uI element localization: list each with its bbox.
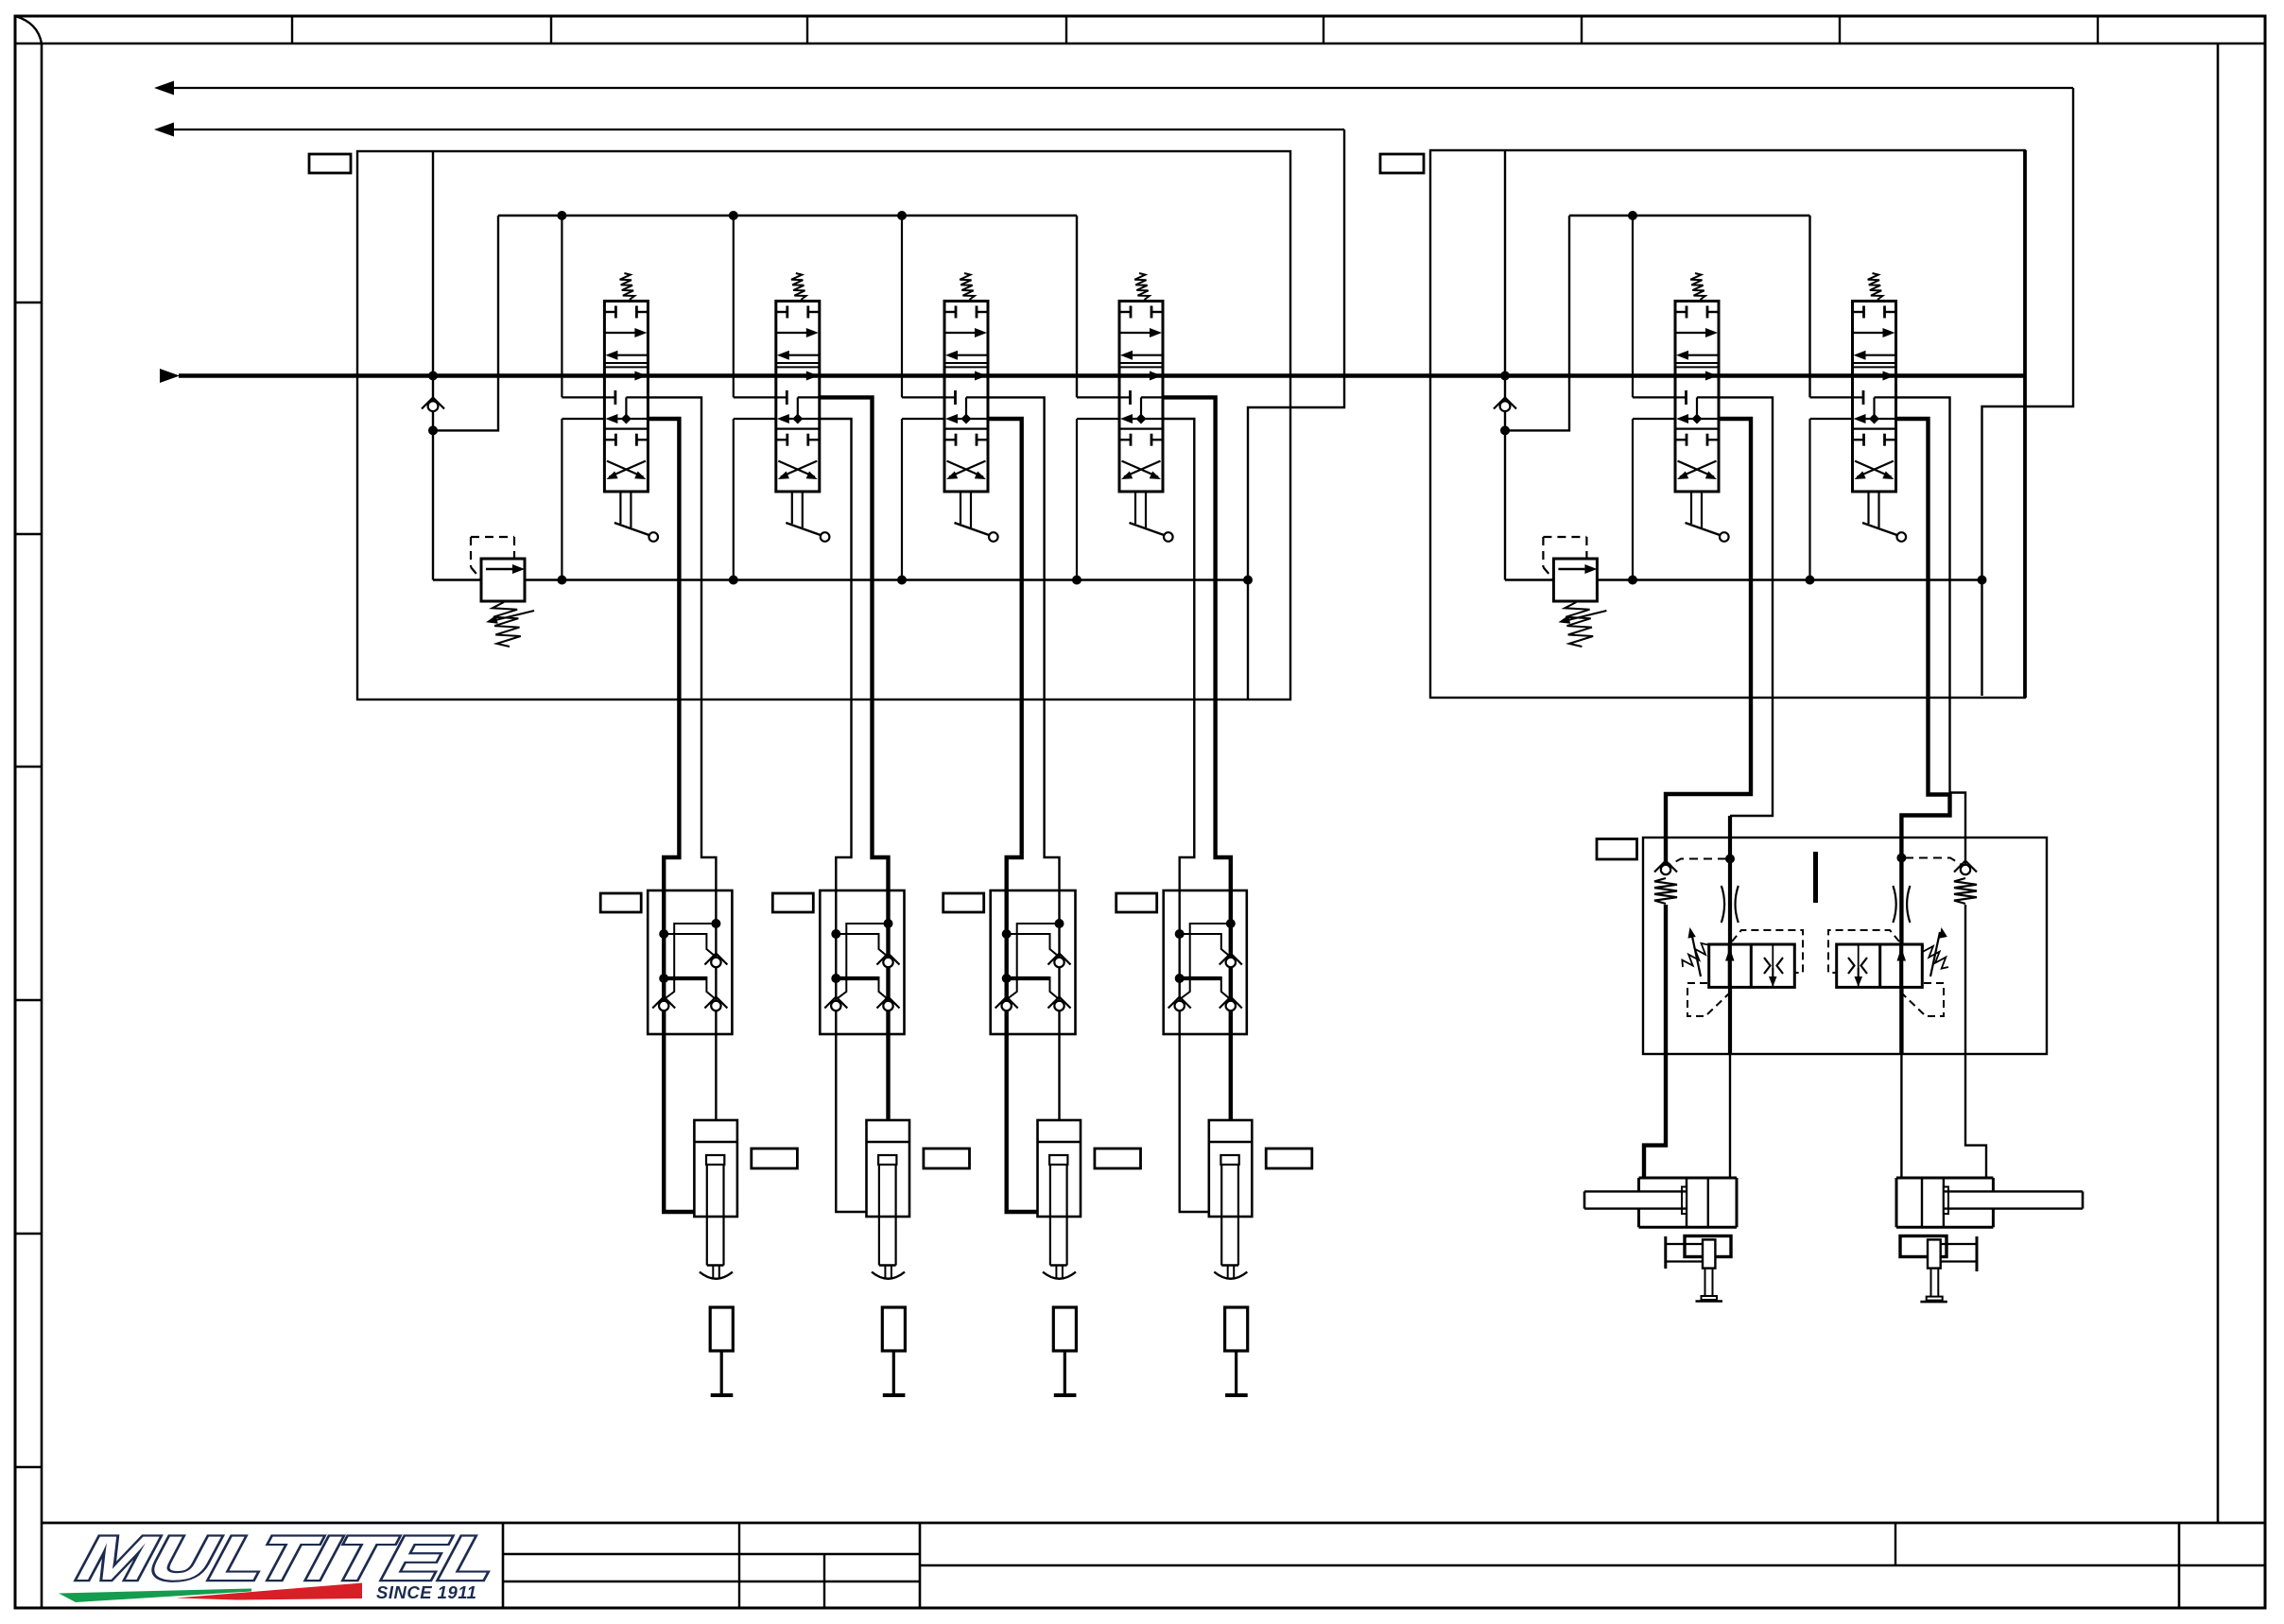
- directional control valve V3: [944, 273, 998, 542]
- directional control valve V5: [1675, 273, 1729, 542]
- work line B3 (cylinder 3 head side): [988, 397, 1060, 1120]
- feed to relief valve left: [433, 579, 481, 580]
- ground pad under cylinder C2: [882, 1307, 905, 1395]
- pilot check valve block CV4: [1164, 890, 1247, 1034]
- counterbalance valve CB-left: [1682, 927, 1803, 1016]
- directional control valve V2: [776, 273, 830, 542]
- extension cylinder C6: [1896, 1178, 2083, 1227]
- feed to relief valve right: [1505, 579, 1553, 580]
- tank return line T1 arrow: [154, 81, 2073, 95]
- return line T1 routing to right block: [1982, 88, 2074, 696]
- work line B2 (cylinder 2 head side): [820, 397, 889, 1120]
- check valve left: [422, 398, 444, 412]
- bus junction A3: [897, 211, 907, 220]
- counterbalance valve CB-right: [1828, 927, 1948, 1016]
- title block cell lines: [503, 1523, 2265, 1608]
- frame inner right margin line: [2217, 43, 2220, 1523]
- valve V4 pilot port stubs: [1077, 216, 1119, 580]
- check block CV3 label box: [943, 893, 984, 912]
- pilot check valve block CV1: [648, 890, 732, 1034]
- right valve bank heavy right edge: [2023, 150, 2027, 698]
- frame corner arc: [15, 16, 42, 43]
- left valve bank enclosure: [357, 151, 1290, 700]
- directional control valve V6: [1853, 273, 1907, 542]
- Multitel logo: [59, 1524, 505, 1602]
- valve V3 pilot port stubs: [902, 216, 944, 580]
- pilot check valve block CV3: [991, 890, 1076, 1034]
- frame inner left margin line: [41, 43, 43, 1608]
- bus junction A2: [729, 211, 738, 220]
- pilot branch to upper bus right: [1505, 216, 1569, 430]
- cylinder C2 label box: [924, 1149, 970, 1168]
- feed line from right block top: [1504, 151, 1506, 376]
- junction T2-bus: [1243, 576, 1253, 585]
- valve V1 pilot port stubs: [562, 216, 604, 580]
- pilot line to check A5 (dashed): [1668, 859, 1726, 867]
- counterbalance manifold label box: [1597, 839, 1637, 860]
- drawing frame ruler line: [15, 43, 2265, 45]
- check block CV2 label box: [772, 893, 813, 912]
- swing pad under cylinder C6: [1900, 1236, 1977, 1303]
- pilot line to check B6 (dashed): [1905, 858, 1964, 867]
- cylinder C3 label box: [1095, 1149, 1141, 1168]
- svg-text:SINCE 1911: SINCE 1911: [376, 1582, 476, 1602]
- valve V2 pilot port stubs: [734, 216, 776, 580]
- work line B1 (cylinder 1 head side): [648, 397, 716, 1120]
- directional control valve V1: [604, 273, 658, 542]
- ground pad under cylinder C1: [710, 1307, 733, 1395]
- bus junction A5: [1628, 211, 1637, 220]
- upper pilot bus right: [1569, 215, 1810, 216]
- counterbalance manifold enclosure: [1643, 838, 2047, 1054]
- tank return line T2 arrow: [154, 123, 1344, 137]
- check valve with spring on A5: [1654, 861, 1677, 905]
- ground pad under cylinder C3: [1053, 1307, 1076, 1395]
- check block CV1 label box: [600, 893, 641, 912]
- pressure supply line P arrow: [160, 369, 2025, 383]
- extension cylinder C5: [1584, 1178, 1737, 1227]
- left valve bank label box: [309, 154, 351, 173]
- junction below check left: [428, 425, 438, 435]
- title block top line: [42, 1522, 2265, 1525]
- cylinder C4 label box: [1266, 1149, 1312, 1168]
- stabilizer cylinder C4: [1209, 1120, 1253, 1279]
- frame top zone ticks: [292, 16, 2098, 43]
- valve V5 pilot port stubs: [1633, 216, 1675, 580]
- manifold centre divider mark: [1813, 852, 1818, 903]
- lower bus right: [1597, 579, 1982, 580]
- pressure relief valve right: [1543, 537, 1606, 647]
- valve V6 pilot port stubs: [1810, 216, 1853, 580]
- lower bus left: [525, 579, 1248, 580]
- check valve right: [1494, 398, 1516, 412]
- work line B6 to rod side of cylinder C6: [1896, 397, 1987, 1178]
- pilot branch to upper bus left: [433, 216, 498, 430]
- stabilizer cylinder C2: [867, 1120, 910, 1279]
- work line A3 (cylinder 3 piston side): [988, 419, 1038, 1212]
- lower bus junction B5: [1628, 576, 1637, 585]
- stabilizer cylinder C3: [1038, 1120, 1081, 1279]
- work line A6 to head side of cylinder C6: [1896, 419, 1950, 1178]
- pilot check valve block CV2: [820, 890, 904, 1034]
- junction T1-bus: [1978, 576, 1987, 585]
- lower bus junction B6: [1806, 576, 1815, 585]
- junction pilot A6: [1896, 854, 1906, 863]
- work line B5 to head side of cylinder C5: [1719, 397, 1773, 1178]
- ground pad under cylinder C4: [1225, 1307, 1248, 1395]
- feed line from left block top: [432, 151, 434, 376]
- work line A4 (cylinder 4 piston side): [1163, 419, 1209, 1212]
- upper pilot bus left: [498, 215, 1077, 216]
- work line A5 to rod side of cylinder C5: [1644, 419, 1751, 1178]
- return line T2 routing to left block: [1248, 130, 1344, 700]
- work line A2 (cylinder 2 piston side): [820, 419, 867, 1212]
- right valve bank label box: [1380, 154, 1424, 173]
- frame left zone ticks: [15, 302, 42, 1467]
- lower bus junction B2: [729, 576, 738, 585]
- junction below check right: [1500, 425, 1510, 435]
- lower bus junction B4: [1072, 576, 1081, 585]
- lower bus junction B1: [557, 576, 566, 585]
- bus junction A1: [557, 211, 566, 220]
- work line A1 (cylinder 1 piston side): [648, 419, 694, 1212]
- junction P-right: [1500, 371, 1510, 381]
- check block CV4 label box: [1116, 893, 1157, 912]
- cylinder C1 label box: [752, 1149, 798, 1168]
- work line B4 (cylinder 4 head side): [1163, 397, 1231, 1120]
- directional control valve V4: [1119, 273, 1173, 542]
- pressure relief valve left: [471, 537, 534, 647]
- swing pad under cylinder C5: [1666, 1236, 1731, 1302]
- junction P-left: [428, 371, 438, 381]
- right valve bank enclosure: [1430, 150, 2025, 698]
- restrictor on B5: [1722, 886, 1739, 923]
- check valve with spring on B6: [1954, 861, 1977, 905]
- restrictor on A6: [1893, 886, 1910, 923]
- stabilizer cylinder C1: [694, 1120, 737, 1279]
- junction pilot B5: [1725, 855, 1735, 864]
- lower bus junction B3: [897, 576, 907, 585]
